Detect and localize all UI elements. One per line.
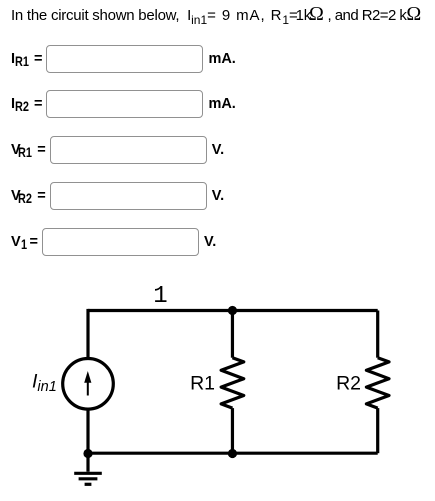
junction dot top R1 [228,306,237,315]
junction dot bottom R1 [228,449,237,458]
resistor R1 [221,358,244,408]
svg-text:R1: R1 [190,372,215,394]
ground [74,454,102,485]
svg-text:R2: R2 [336,372,361,394]
wire R2 bottom stub [376,408,379,453]
svg-text:1: 1 [153,283,167,310]
current source I_in1 [63,359,114,410]
junction dot bottom left [83,449,92,458]
current source arrow [84,371,91,396]
wire bottom [88,452,378,455]
svg-text:Iin1: Iin1 [32,371,57,396]
resistor R2 [366,358,389,408]
wire top [88,309,378,312]
wire left rail lower [86,410,89,453]
wire R2 top stub [376,311,379,358]
wire R1 top stub [231,311,234,358]
wire left rail upper [86,309,89,358]
wire R1 bottom stub [231,408,234,453]
